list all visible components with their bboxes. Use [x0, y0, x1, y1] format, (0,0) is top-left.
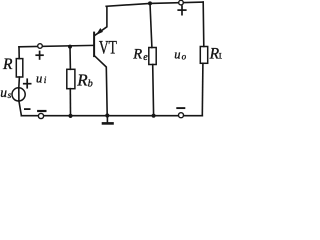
svg-text:o: o [182, 51, 187, 61]
svg-text:b: b [88, 79, 93, 90]
svg-text:i: i [44, 76, 47, 86]
svg-text:u: u [0, 85, 7, 100]
svg-text:u: u [174, 48, 180, 62]
svg-text:R: R [2, 56, 13, 73]
svg-text:VT: VT [99, 39, 117, 59]
svg-text:u: u [36, 72, 42, 86]
svg-text:R: R [76, 70, 88, 89]
svg-text:e: e [143, 52, 148, 63]
svg-text:s: s [8, 91, 12, 101]
svg-text:L: L [219, 51, 222, 61]
svg-text:R: R [132, 46, 142, 62]
